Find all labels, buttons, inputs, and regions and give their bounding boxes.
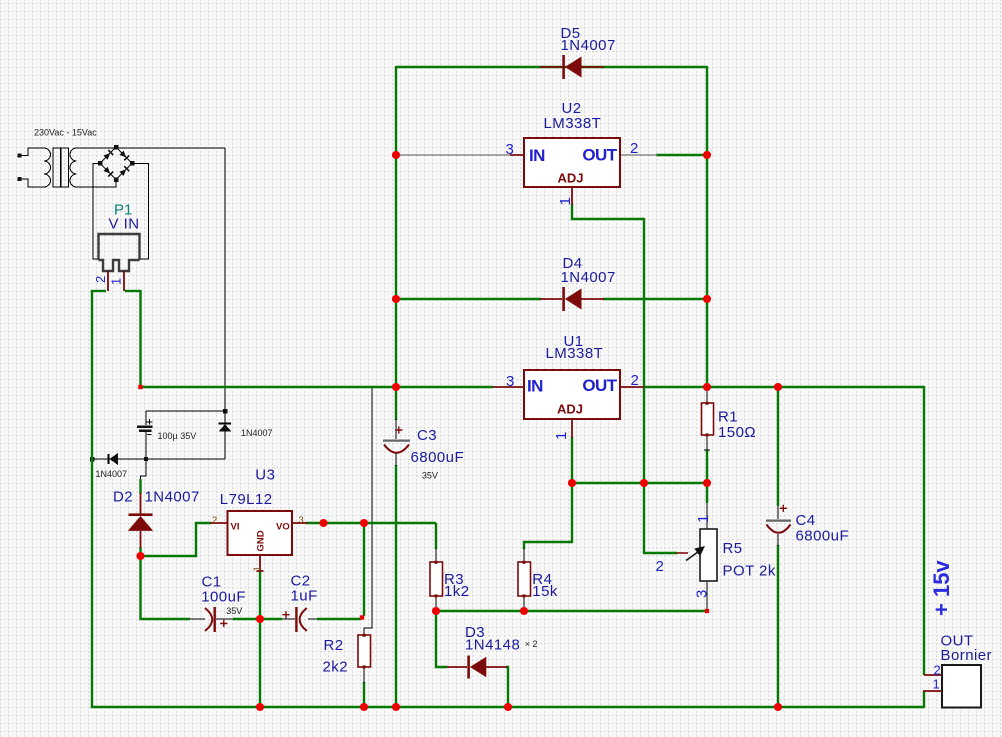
resistor R3 (430, 548, 443, 611)
U1 OUT pin stub (620, 386, 644, 388)
svg-text:3: 3 (506, 141, 514, 158)
P1 pin 2 stub (107, 271, 109, 291)
diode D5 pins (540, 66, 604, 68)
svg-text:POT 2k: POT 2k (723, 562, 776, 579)
svg-text:2: 2 (631, 372, 639, 389)
svg-text:R2: R2 (324, 637, 344, 654)
svg-text:L79L12: L79L12 (220, 491, 273, 508)
U3 GND pin stub (257, 555, 264, 571)
transformer TR1 primary winding (18, 148, 51, 187)
svg-text:1: 1 (252, 566, 263, 571)
wire U1 IN row y387 (141, 386, 494, 388)
wire left rail x396 C3 upper stub (395, 387, 397, 420)
transformer secondary winding (70, 148, 77, 187)
node black bus junction (223, 409, 228, 414)
wire U2 OUT to right rail (656, 154, 707, 156)
junction dot 396,299 (392, 295, 400, 303)
wire right drop x924 (923, 386, 925, 675)
wire secondary bottom to bridge bottom (77, 180, 117, 188)
diode D3 body (467, 656, 486, 679)
junction dot 524,611 (520, 607, 528, 615)
resistor R4 (518, 548, 531, 611)
junction dot 778,387 (774, 383, 782, 391)
capacitor C4 (766, 505, 791, 546)
diode D2 body (128, 513, 153, 531)
wire R2 feeder from row387 (364, 388, 372, 636)
svg-text:3: 3 (694, 590, 711, 598)
wire C1 C2 row left (141, 555, 191, 619)
op-amp U2 LM338T box (524, 138, 620, 187)
transformer core (53, 148, 68, 187)
wire gray U2 OUT stub (620, 154, 657, 156)
wire D2 bottom stub (139, 547, 141, 556)
capacitor C1 (190, 607, 233, 632)
node cap junction y459 (144, 457, 148, 461)
bridge diode bottom-right (119, 166, 130, 177)
wire x572 down to R4 jog (524, 483, 572, 549)
junction dot 707,299 (703, 295, 711, 303)
svg-text:LM338T: LM338T (546, 345, 604, 362)
svg-text:× 2: × 2 (525, 639, 538, 649)
resistor R2 (358, 634, 371, 683)
svg-text:100uF: 100uF (201, 588, 246, 605)
svg-text:1N4007: 1N4007 (241, 428, 273, 438)
svg-text:35V: 35V (422, 470, 438, 480)
svg-text:1N4007: 1N4007 (561, 37, 616, 54)
capacitor 100u pin bottom (145, 432, 147, 459)
svg-text:2: 2 (93, 276, 108, 283)
junction dot 778,707 (774, 703, 782, 711)
U2 ADJ pin stub (571, 187, 573, 205)
wire P1 pin1 stub (125, 290, 141, 292)
svg-text:1: 1 (109, 278, 124, 285)
diode top-right 1N4007 pin (224, 411, 226, 423)
wire row y411 (146, 410, 225, 412)
svg-text:VO: VO (276, 522, 290, 533)
wire U3 GND down (259, 570, 261, 707)
diode D4 pins (540, 298, 604, 300)
junction dot 396,387 (392, 383, 400, 391)
diode D2 pins (140, 493, 142, 548)
svg-text:C3: C3 (417, 427, 437, 444)
capacitor C2 (282, 607, 317, 632)
svg-text:VI: VI (231, 522, 240, 533)
svg-text:1: 1 (553, 432, 570, 440)
wire bridge right node down to P1 (132, 163, 149, 259)
junction dot 260,619 (256, 615, 264, 623)
wire U2 ADJ down jog (572, 204, 644, 219)
node black on green rail (90, 457, 95, 462)
wire black bus top to 225 down (224, 148, 226, 411)
wire C4 top drop (777, 387, 779, 506)
wire U3 VO row y523 (306, 522, 436, 524)
svg-text:GND: GND (256, 530, 267, 551)
wire top rail y67 (396, 66, 707, 68)
wire x364 VO row down to C2 (363, 523, 365, 616)
svg-text:100µ 35V: 100µ 35V (158, 431, 197, 441)
svg-text:D2: D2 (113, 489, 133, 506)
bridge rectifier B1 diamond (100, 147, 132, 180)
junction dot 572,483 (568, 479, 576, 487)
wire D4 row y299 (396, 298, 707, 300)
junction dot 707,155 (703, 151, 711, 159)
U1 ADJ pin stub (571, 419, 573, 438)
wire left rail x396 C3 lower to bottom (395, 465, 397, 707)
junction dot 644,483 (640, 479, 648, 487)
net end square 140,387 (138, 385, 142, 389)
bridge diode top-left (103, 149, 114, 160)
wire x707 row483 to R5 (706, 483, 708, 503)
resistor R1 (702, 387, 714, 450)
wire right rail x707 (706, 66, 708, 388)
svg-text:C4: C4 (796, 512, 816, 529)
connector OUT Bornier box (942, 665, 981, 708)
potentiometer R5 wiper arrow (686, 546, 705, 561)
junction dot 396,155 (392, 151, 400, 159)
svg-text:R5: R5 (723, 540, 743, 557)
svg-text:1N4007: 1N4007 (145, 489, 200, 506)
wire R1 bottom to row483 (706, 450, 708, 483)
wire secondary top to black bus (77, 147, 226, 149)
U3 VO pin stub (292, 522, 307, 524)
regulator U3 L79L12 box (228, 511, 293, 555)
diode D3 pins (447, 666, 507, 668)
svg-text:OUT: OUT (582, 376, 617, 395)
svg-text:ADJ: ADJ (557, 401, 583, 416)
svg-text:15k: 15k (532, 583, 558, 600)
svg-text:Bornier: Bornier (941, 647, 993, 664)
junction dot 707,387 (703, 383, 711, 391)
svg-text:150Ω: 150Ω (718, 424, 756, 441)
wire R2 bottom to rail (363, 682, 365, 707)
wire bridge left node down to P1 (93, 163, 100, 259)
svg-text:2: 2 (212, 515, 217, 526)
wire C2 to end (317, 618, 361, 620)
svg-text:1: 1 (695, 515, 712, 523)
svg-text:3: 3 (506, 373, 514, 390)
diode D4 body (562, 287, 581, 311)
capacitor C3 (383, 419, 410, 466)
P1 pin 1 stub (123, 271, 125, 291)
diode top-right 1N4007 body (219, 423, 232, 459)
svg-text:P1: P1 (114, 202, 132, 219)
svg-text:6800uF: 6800uF (796, 528, 850, 545)
svg-text:1N4007: 1N4007 (96, 469, 128, 479)
diode left 1N4007 body (109, 453, 119, 465)
wire D3 right to bottom rail (506, 667, 508, 707)
svg-text:IN: IN (527, 377, 543, 396)
connector P1 body (99, 234, 140, 271)
svg-text:1k2: 1k2 (444, 583, 470, 600)
pin tick R2 feeder top (369, 387, 376, 389)
svg-text:6800uF: 6800uF (411, 449, 465, 466)
svg-text:2: 2 (934, 662, 941, 677)
capacitor 100u 35V pin top (145, 411, 147, 425)
svg-text:1: 1 (557, 197, 574, 205)
svg-text:1N4007: 1N4007 (561, 269, 616, 286)
wire R3 R4 R5 row y611 (436, 610, 708, 612)
wire D2 top black jog (141, 459, 147, 480)
wire U1 ADJ down (571, 437, 573, 483)
wire R3 down to D3 (436, 611, 447, 667)
wire D2 top stub green (139, 479, 141, 494)
wire left rail x92 (91, 290, 93, 708)
svg-text:+ 15v: + 15v (929, 560, 954, 616)
capacitor 100u minus sign (147, 433, 152, 435)
capacitor 100u plus sign (147, 419, 153, 425)
wire x644 down to wiper (644, 483, 677, 553)
op-amp U1 LM338T box (524, 370, 620, 419)
svg-text:2: 2 (630, 140, 638, 157)
svg-text:230Vac - 15Vac: 230Vac - 15Vac (34, 128, 97, 138)
OUT pin 1 stub (923, 690, 942, 692)
svg-text:1uF: 1uF (291, 588, 318, 605)
junction dot 323.5,523 (319, 519, 327, 527)
junction dot 436,611 (432, 607, 440, 615)
wire P1 down x140 (139, 290, 141, 387)
junction dot 364,523 (360, 519, 368, 527)
junction dot 364,707 (360, 703, 368, 711)
junction dot 508,707 (504, 703, 512, 711)
svg-text:R1: R1 (718, 408, 738, 425)
junction dot 260,707 (256, 703, 264, 711)
wire ADJ bus x644 (643, 218, 645, 483)
svg-text:2: 2 (656, 558, 664, 575)
U3 VI pin stub (210, 522, 228, 524)
wire P1 pin2 stub (91, 290, 106, 292)
wire ADJ row y483 (572, 482, 707, 484)
wire VO row down to R3 (435, 523, 437, 549)
wire bottom rail y707 (91, 706, 924, 708)
wire OUT pin1 drop (923, 691, 925, 708)
junction dot 396,707 (392, 703, 400, 711)
junction dot 707,483 (703, 479, 711, 487)
svg-text:1N4148: 1N4148 (465, 636, 520, 653)
svg-text:3: 3 (299, 515, 304, 526)
wire row y459 (92, 458, 225, 460)
wire U3 VI feed (141, 523, 212, 556)
R5 wiper pin stub (676, 552, 688, 554)
svg-text:U3: U3 (255, 466, 275, 483)
svg-text:ADJ: ADJ (558, 171, 584, 186)
bridge node squares (98, 145, 135, 182)
wire gray U2 IN row (396, 154, 524, 156)
net end square 707,611 (705, 609, 709, 613)
net end square 362,617 (360, 615, 364, 619)
junction dot 141,556 (136, 552, 144, 560)
bridge diode bottom-left (103, 166, 114, 177)
U2 IN pin stub (510, 154, 524, 156)
capacitor 100u 35V plates (137, 427, 153, 431)
svg-text:35V: 35V (226, 606, 242, 616)
svg-text:1: 1 (933, 676, 940, 691)
OUT pin 2 stub (924, 674, 942, 676)
svg-text:OUT: OUT (582, 146, 617, 165)
wire U1 OUT row y387 to far right (643, 386, 924, 388)
bridge diode top-right (119, 150, 130, 161)
wire left rail x396 upper (395, 66, 397, 387)
svg-text:2k2: 2k2 (323, 659, 349, 676)
potentiometer R5 box (700, 503, 717, 611)
svg-text:IN: IN (529, 146, 545, 165)
wire C4 bottom to rail (777, 545, 779, 707)
diode D5 body (562, 55, 581, 79)
svg-text:LM338T: LM338T (544, 115, 602, 132)
wire C1 to GND node (233, 618, 282, 620)
U1 IN pin stub (493, 386, 524, 388)
